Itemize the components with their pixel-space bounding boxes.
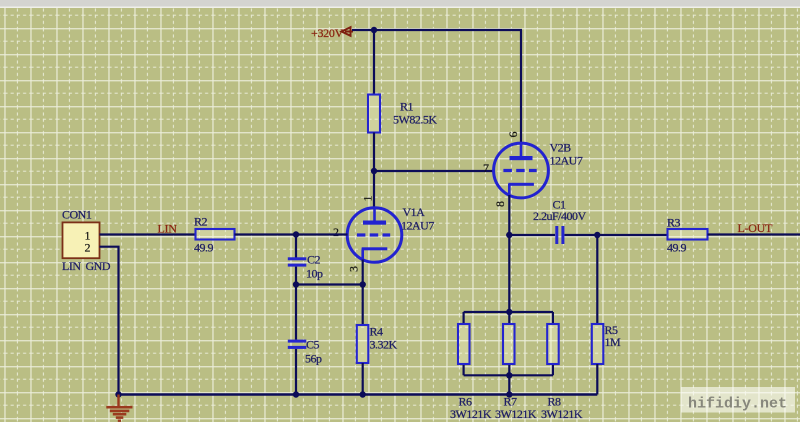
svg-text:7: 7 (483, 161, 489, 175)
svg-text:10p: 10p (306, 267, 323, 281)
svg-text:5W82.5K: 5W82.5K (393, 113, 437, 127)
svg-text:3W121K: 3W121K (450, 407, 492, 421)
wire R1 top lead (373, 30, 375, 95)
wire R6 stubs (463, 312, 465, 375)
wire V1A cathode lead (362, 260, 364, 285)
svg-text:LIN GND: LIN GND (62, 259, 111, 273)
wire CON1 pin1 to R2 (100, 233, 196, 235)
svg-text:56p: 56p (305, 352, 322, 366)
wire C2 top lead (295, 235, 297, 258)
junction gnd corner (115, 391, 121, 397)
svg-text:L-OUT: L-OUT (738, 221, 773, 235)
op-amp V2B triode (494, 141, 583, 198)
svg-text:3W121K: 3W121K (495, 407, 537, 421)
svg-text:C5: C5 (306, 338, 320, 352)
svg-text:V2B: V2B (550, 141, 572, 155)
svg-text:2.2uF/400V: 2.2uF/400V (533, 209, 587, 223)
capacitor C5 (288, 338, 322, 366)
svg-text:8: 8 (493, 201, 507, 207)
junction bank top (506, 309, 512, 315)
resistor R4 (357, 325, 398, 364)
resistor R3 (667, 216, 708, 255)
svg-text:C2: C2 (307, 253, 321, 267)
svg-text:49.9: 49.9 (667, 241, 687, 255)
svg-text:V1A: V1A (403, 205, 426, 219)
junction R4 node (360, 281, 366, 287)
wire R1 bottom lead (373, 133, 375, 172)
wire V1A plate lead (373, 171, 375, 209)
junction on top rail (371, 27, 377, 33)
junction bank gnd (506, 391, 512, 397)
wire bank bottom bus (464, 374, 553, 376)
junction cathode tap (293, 281, 299, 287)
wire CON1 pin2 stub (100, 247, 119, 395)
wire V2B pin6 lead (520, 30, 522, 144)
svg-text:R2: R2 (194, 215, 208, 229)
junction R5 node (594, 232, 600, 238)
junction R4 gnd (360, 391, 366, 397)
junction bank bottom (506, 372, 512, 378)
svg-text:R4: R4 (370, 325, 384, 339)
wire R5 bottom lead (596, 364, 598, 395)
wire C5 top lead (295, 285, 297, 340)
wire ground rail (119, 393, 598, 395)
transistor V1A triode (347, 205, 434, 262)
svg-text:3W121K: 3W121K (541, 407, 583, 421)
watermark hifidiy.net (681, 387, 795, 413)
wire to V2B grid pin7 (374, 170, 494, 172)
wire C1 to R3 (565, 234, 668, 236)
junction C1 node (506, 232, 512, 238)
svg-text:1: 1 (361, 196, 375, 202)
svg-text:6: 6 (506, 132, 520, 138)
wire R2 to V1A pin2 (235, 233, 348, 235)
svg-text:12AU7: 12AU7 (401, 219, 434, 233)
wire R7 stubs (508, 312, 510, 375)
wire V2B cathode down (508, 195, 510, 312)
resistor R5 (592, 323, 621, 364)
junction node plate V1A (371, 168, 377, 174)
svg-text:3: 3 (347, 266, 361, 272)
resistor R1 (368, 95, 437, 133)
svg-text:3.32K: 3.32K (370, 338, 398, 352)
ground (106, 395, 132, 421)
resistor R7 (495, 324, 537, 421)
svg-text:1M: 1M (605, 335, 622, 349)
resistor R6 (450, 324, 492, 421)
connector CON1 (62, 208, 111, 274)
svg-text:12AU7: 12AU7 (550, 154, 583, 168)
svg-text:R1: R1 (400, 100, 414, 114)
svg-text:49.9: 49.9 (194, 241, 214, 255)
capacitor C2 (288, 253, 323, 281)
svg-text:2: 2 (333, 225, 339, 239)
wire R8 stubs (552, 312, 554, 375)
wire cathode cross (296, 283, 363, 285)
wire R4 top lead (362, 285, 364, 326)
svg-text:CON1: CON1 (62, 208, 92, 222)
wire C5 bottom lead (295, 349, 297, 395)
resistor R8 (541, 324, 583, 421)
wire to C1 (509, 234, 555, 236)
svg-text:2: 2 (85, 241, 91, 255)
resistor R2 (194, 215, 235, 255)
svg-text:R3: R3 (667, 216, 681, 230)
capacitor C1 (533, 198, 587, 245)
wire C2 bottom lead (295, 267, 297, 285)
junction C5 gnd (293, 391, 299, 397)
svg-text:+320V: +320V (311, 26, 344, 40)
svg-text:hifidiy.net: hifidiy.net (688, 396, 787, 413)
power port +320V (311, 26, 353, 40)
wire top rail (352, 29, 522, 31)
wire R5 top lead (596, 235, 598, 324)
wire R3 to L-OUT (708, 233, 800, 235)
wire R4 bottom lead (362, 363, 364, 395)
wire bank top bus (464, 311, 553, 313)
wire bank drop (508, 375, 510, 394)
junction C2 tap (293, 231, 299, 237)
svg-text:LIN: LIN (158, 222, 178, 236)
